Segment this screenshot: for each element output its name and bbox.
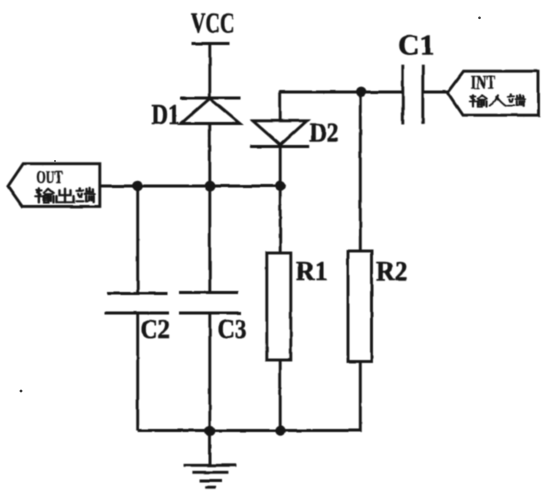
wire bus to ground symbol [209,431,212,466]
resistor R1 [267,253,291,360]
junction main-C2 [133,181,143,191]
svg-text:D2: D2 [310,118,339,148]
node OUT flag [8,164,100,207]
capacitor C3 [179,293,241,314]
svg-text:OUT: OUT [36,167,62,187]
wire C1 to INT flag [423,91,448,94]
junction bus-ground [205,425,216,436]
svg-text:D1: D1 [152,100,180,131]
node INT flag [447,71,538,115]
svg-text:C1: C1 [398,31,435,62]
wire main node to R1 [279,186,282,253]
capacitor C2 [105,294,169,314]
wire C3 to ground bus [208,313,211,431]
wire C2 to ground bus [136,313,139,431]
junction main-D2 [275,181,285,191]
wire main node to C2 [136,186,139,293]
svg-text:INT: INT [471,72,496,93]
wire top net to R2 [359,92,362,251]
svg-text:C3: C3 [218,314,248,344]
speck [478,17,481,20]
label 输出端 [35,188,94,202]
junction main-VCC rail [205,181,216,192]
wire OUT flag to main node [100,185,280,188]
wire main node to C3 [208,186,211,293]
svg-text:R2: R2 [376,256,408,286]
ground [184,465,237,487]
wire VCC to D1 cathode [208,44,211,99]
wire ground bus [138,429,281,432]
svg-text:C2: C2 [141,314,171,344]
svg-text:VCC: VCC [191,9,235,40]
speck [20,390,23,393]
wire R1 to ground bus [279,360,282,431]
wire R2 to ground bus [280,362,360,431]
resistor R2 [348,251,372,362]
wire D1 anode to main node [208,124,211,187]
wire top net: D2 top to C1 [280,92,403,121]
power symbol VCC [192,42,230,45]
junction top net-R2 [356,87,366,97]
label 输入端 [470,95,525,107]
wire D2 cathode to main node [279,147,282,187]
diode D1 [180,98,241,124]
svg-text:R1: R1 [296,256,328,286]
speck [54,160,56,162]
capacitor C1 [403,65,423,125]
junction bus-R1 [275,425,285,435]
diode D2 [250,121,309,147]
